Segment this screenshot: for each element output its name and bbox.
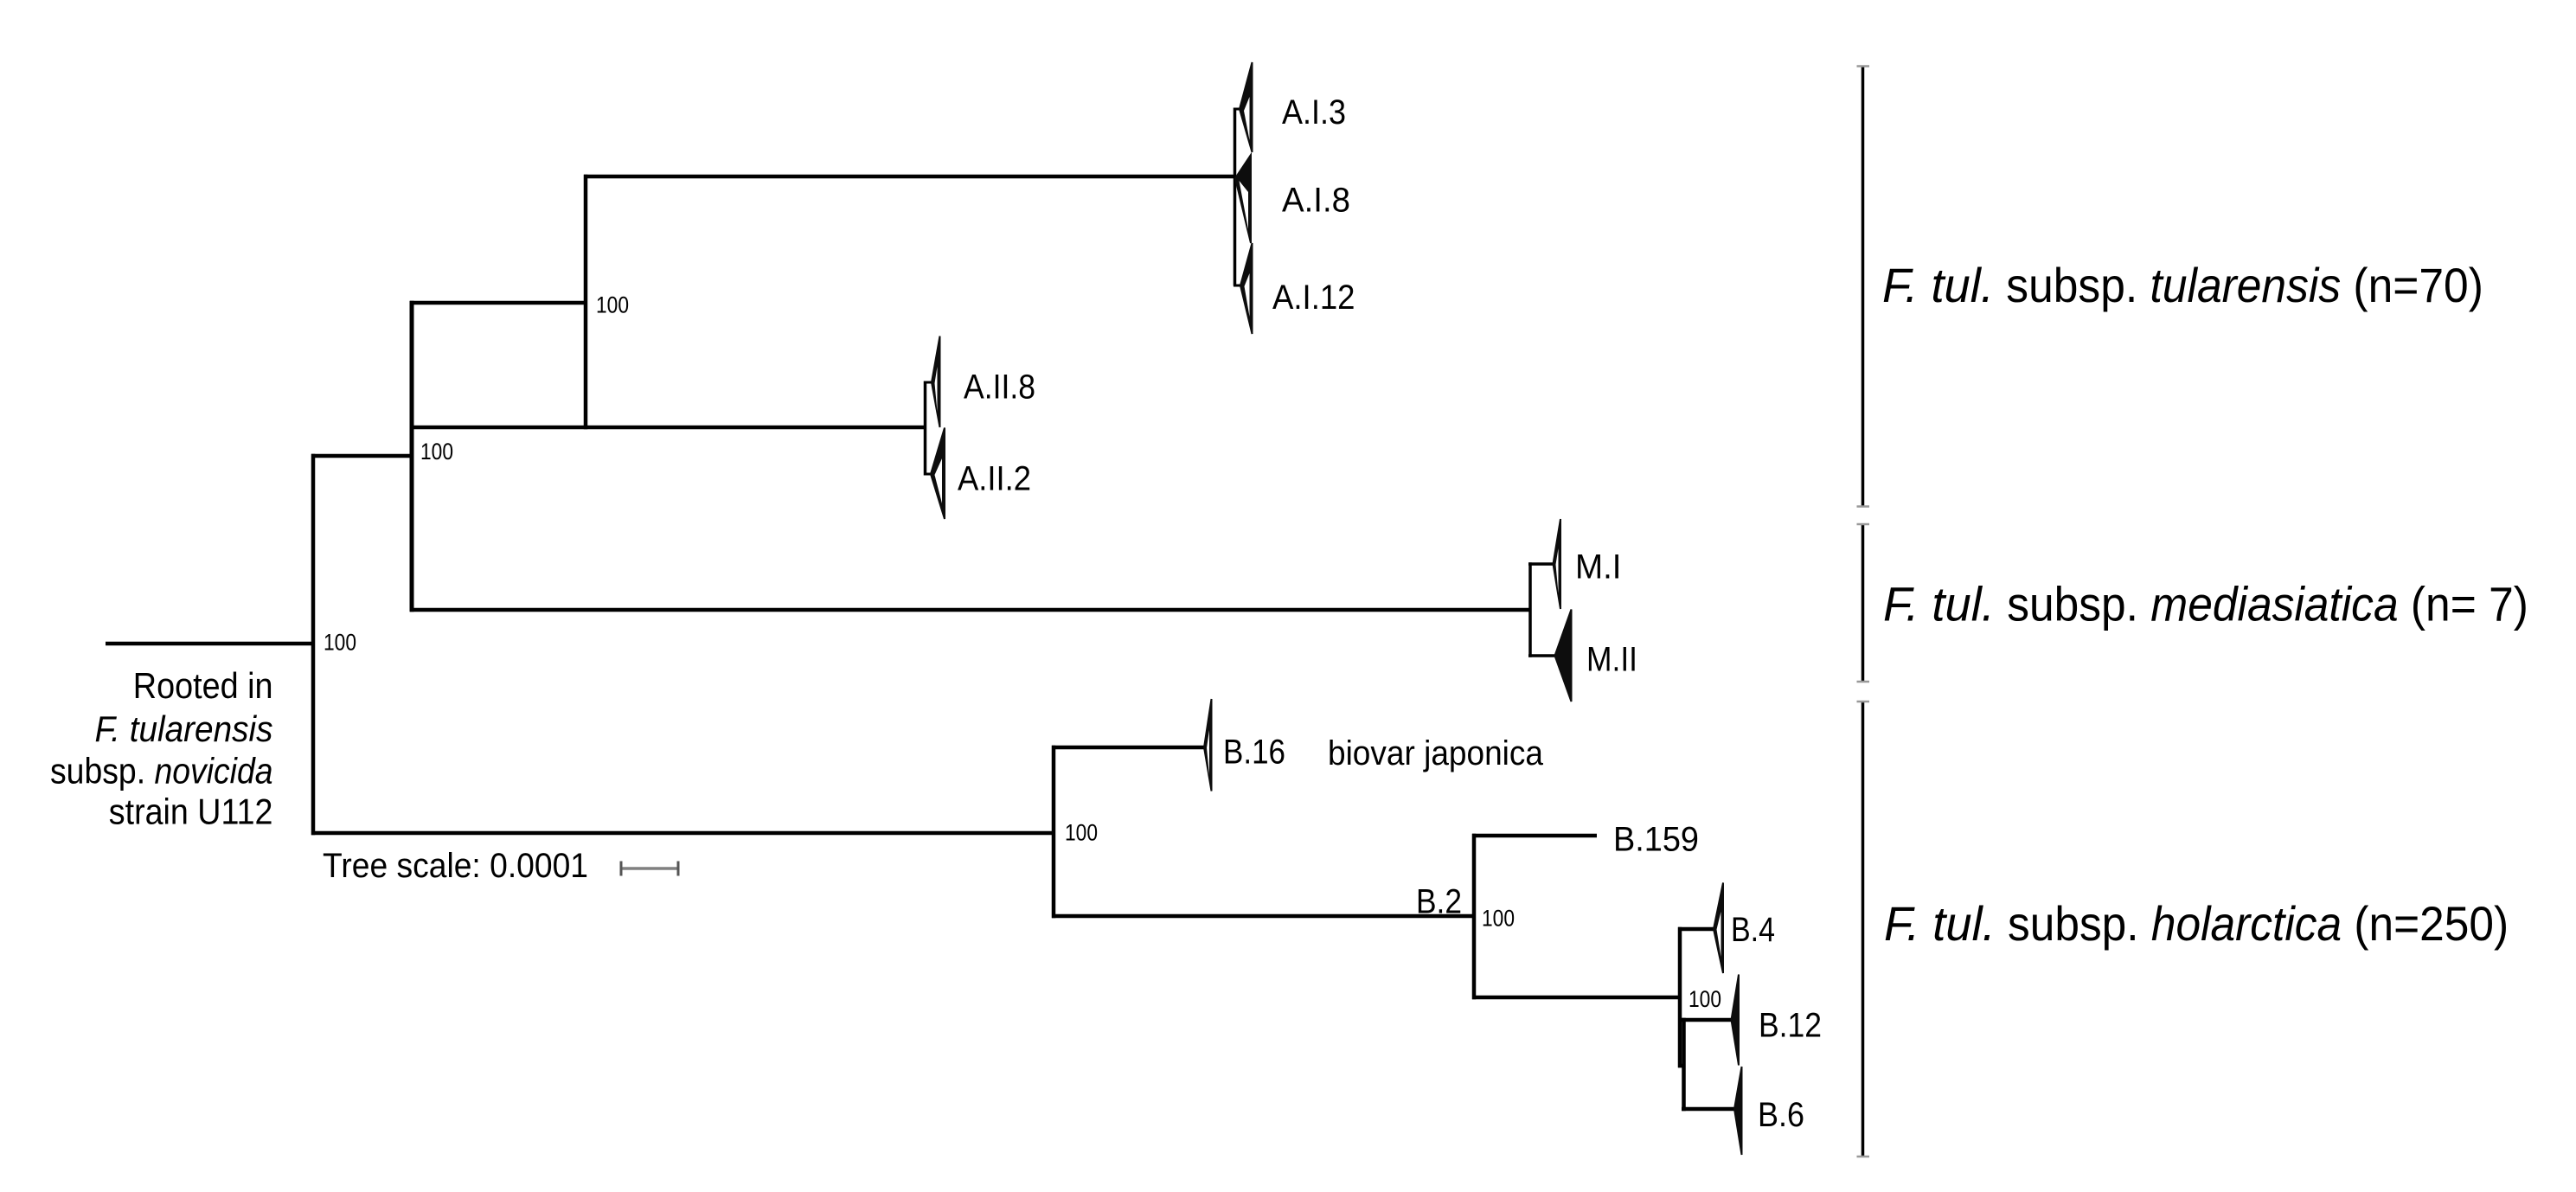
wire P branch — [1472, 996, 1682, 1000]
svg-text:subsp.: subsp. — [2006, 258, 2137, 312]
svg-text:100: 100 — [596, 292, 629, 318]
svg-text:M.II: M.II — [1586, 640, 1637, 678]
wire B vertical — [1052, 746, 1056, 918]
svg-text:100: 100 — [1065, 820, 1098, 846]
svg-text:mediasiatica: mediasiatica — [2150, 577, 2398, 631]
clade triangle A.II.8 — [932, 336, 940, 428]
wire B.159 branch — [1472, 834, 1597, 838]
wire B.2 branch — [1052, 914, 1476, 919]
svg-text:F. tularensis: F. tularensis — [95, 708, 273, 749]
svg-text:B.12: B.12 — [1759, 1006, 1822, 1044]
wire B.16 branch — [1052, 746, 1204, 750]
wire B.12 branch — [1682, 1018, 1732, 1022]
svg-text:Tree scale: 0.0001: Tree scale: 0.0001 — [323, 847, 588, 885]
wire Q stub — [1678, 1064, 1685, 1068]
svg-text:novicida: novicida — [155, 751, 273, 791]
svg-text:A.I.3: A.I.3 — [1282, 93, 1346, 131]
svg-text:(n= 7): (n= 7) — [2411, 577, 2528, 631]
clade triangle B.6 — [1734, 1067, 1742, 1155]
svg-text:F. tul.: F. tul. — [1884, 896, 1996, 951]
wire root edge — [106, 642, 315, 646]
clade triangle A.I.12 — [1240, 243, 1253, 334]
wire Q vertical — [1682, 1018, 1686, 1111]
svg-text:A.I.12: A.I.12 — [1272, 279, 1355, 317]
svg-text:A.II.8: A.II.8 — [964, 368, 1035, 406]
svg-text:(n=250): (n=250) — [2354, 896, 2509, 951]
label holarctica group — [1884, 896, 2509, 951]
svg-text:subsp.: subsp. — [2008, 896, 2139, 951]
wire B branch — [311, 831, 1055, 836]
svg-text:100: 100 — [420, 439, 453, 465]
wire N2 vertical — [584, 175, 588, 429]
svg-text:strain U112: strain U112 — [109, 791, 273, 832]
wire B.4 branch — [1678, 927, 1714, 932]
svg-text:F. tul.: F. tul. — [1883, 577, 1995, 631]
wire N1 vertical — [410, 301, 414, 612]
wire A.II branch — [410, 426, 926, 430]
svg-text:A.I.8: A.I.8 — [1282, 181, 1350, 219]
svg-text:(n=70): (n=70) — [2353, 258, 2483, 312]
label mediasiatica group — [1883, 577, 2528, 631]
clade triangle A.I.8 — [1235, 155, 1251, 243]
clade triangle M.I — [1554, 519, 1561, 609]
bracket tularensis — [1862, 67, 1865, 507]
clade triangle B.12 — [1732, 975, 1740, 1066]
svg-text:B.159: B.159 — [1613, 820, 1699, 858]
svg-text:100: 100 — [1688, 986, 1721, 1012]
wire A.II comb — [924, 381, 927, 476]
scale bar — [621, 867, 678, 870]
svg-text:F. tul.: F. tul. — [1882, 258, 1994, 312]
svg-text:tularensis: tularensis — [2150, 258, 2342, 312]
clade triangle M.II — [1555, 610, 1572, 702]
wire P vertical — [1678, 927, 1682, 1067]
bracket holarctica — [1862, 702, 1865, 1157]
svg-text:B.6: B.6 — [1758, 1096, 1804, 1134]
wire N1 edge — [311, 454, 413, 458]
svg-text:M.I: M.I — [1575, 548, 1622, 586]
wire root vertical — [311, 454, 316, 835]
svg-text:biovar japonica: biovar japonica — [1328, 734, 1544, 772]
clade triangle A.I.3 — [1240, 62, 1253, 152]
wire A.I comb — [1234, 108, 1237, 286]
svg-text:B.16: B.16 — [1223, 733, 1285, 771]
svg-text:Rooted in: Rooted in — [133, 665, 273, 706]
wire B.2 vertical — [1472, 834, 1477, 999]
label tularensis group — [1882, 258, 2483, 312]
clade triangle B.16 — [1204, 699, 1212, 791]
svg-text:B.2: B.2 — [1416, 882, 1462, 920]
clade triangle A.II.2 — [931, 428, 945, 520]
svg-text:100: 100 — [324, 630, 356, 656]
svg-text:B.4: B.4 — [1731, 911, 1775, 949]
wire M comb — [1528, 562, 1532, 657]
wire A.I branch — [584, 175, 1234, 179]
svg-text:holarctica: holarctica — [2151, 896, 2342, 951]
clade triangle B.4 — [1714, 883, 1723, 974]
wire B.6 branch — [1682, 1107, 1735, 1112]
wire N2 edge — [410, 301, 587, 305]
svg-text:subsp.: subsp. — [2007, 577, 2138, 631]
bracket mediasiatica — [1862, 524, 1865, 682]
svg-text:100: 100 — [1482, 906, 1515, 932]
svg-text:A.II.2: A.II.2 — [958, 459, 1031, 497]
wire M branch — [410, 608, 1531, 612]
svg-text:subsp.: subsp. — [50, 751, 145, 791]
